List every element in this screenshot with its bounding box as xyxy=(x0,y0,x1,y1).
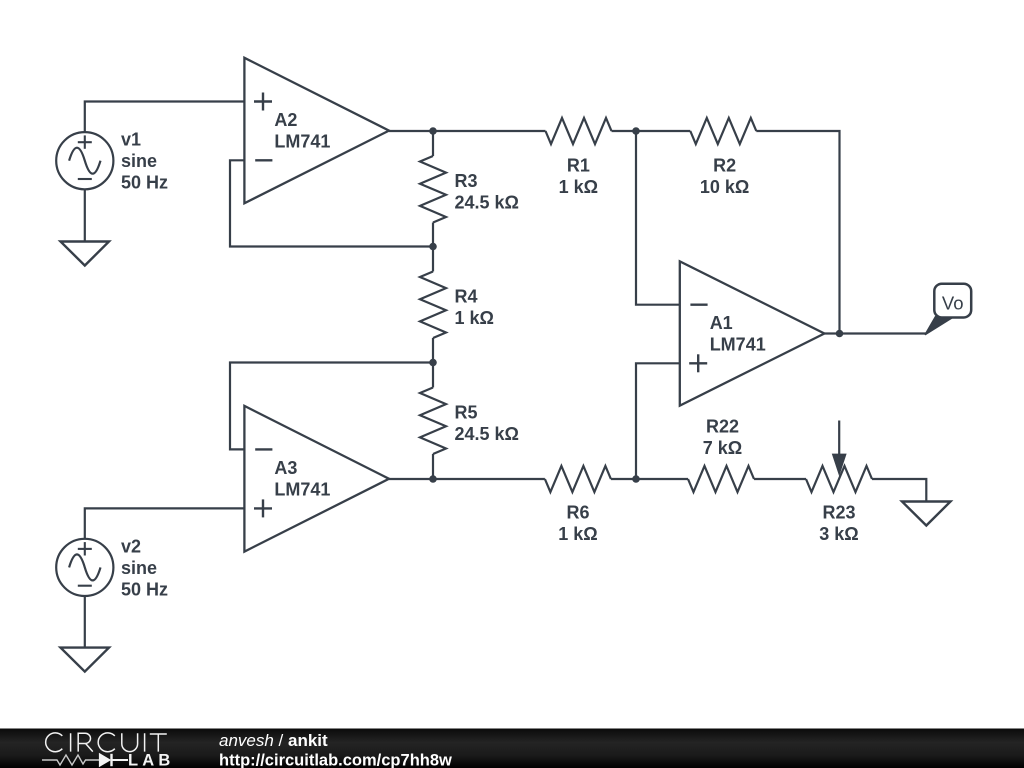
footer bar xyxy=(0,729,1024,768)
svg-text:sine: sine xyxy=(121,151,157,171)
svg-text:R23: R23 xyxy=(822,503,855,523)
wire v1 top to A2 plus input xyxy=(85,102,245,133)
A3 plus symbol xyxy=(254,507,272,509)
node B (R6-R22 / A1 non-inverting) xyxy=(632,475,640,483)
Vo flag box xyxy=(934,284,971,318)
svg-text:1 kΩ: 1 kΩ xyxy=(559,177,598,197)
wire R1 to node A xyxy=(612,130,637,132)
ground right xyxy=(902,502,951,526)
A1 plus symbol xyxy=(689,362,707,364)
svg-text:sine: sine xyxy=(121,558,157,578)
svg-text:A3: A3 xyxy=(274,458,297,478)
svg-text:3 kΩ: 3 kΩ xyxy=(819,524,858,544)
svg-text:v2: v2 xyxy=(121,537,141,557)
wire v2 to A3 plus input xyxy=(85,508,245,539)
svg-text:10 kΩ: 10 kΩ xyxy=(700,177,749,197)
svg-text:1 kΩ: 1 kΩ xyxy=(558,524,597,544)
CircuitLab logo text CIRCUIT (custom thin letterforms) xyxy=(46,733,167,752)
svg-text:R4: R4 xyxy=(455,287,478,307)
wire A1 output to Vo xyxy=(824,332,926,334)
op-amp A3 xyxy=(244,406,389,552)
node R3-R4 junction xyxy=(429,243,437,251)
svg-text:R2: R2 xyxy=(713,156,736,176)
potentiometer R23 xyxy=(806,466,872,492)
svg-text:A1: A1 xyxy=(710,313,733,333)
wire node A down to A1 minus xyxy=(636,131,680,305)
resistor R1 xyxy=(546,118,612,144)
wire v1 to ground xyxy=(84,189,86,242)
svg-text:R3: R3 xyxy=(455,171,478,191)
ground for v2 xyxy=(61,648,110,672)
node A2 out / R3 top xyxy=(429,127,437,135)
wire A2 minus feedback xyxy=(230,160,433,246)
svg-text:50 Hz: 50 Hz xyxy=(121,580,168,600)
resistor R3 xyxy=(432,131,434,156)
op-amp A1 xyxy=(680,261,825,405)
svg-text:24.5 kΩ: 24.5 kΩ xyxy=(455,193,519,213)
svg-text:LM741: LM741 xyxy=(274,480,330,500)
svg-text:1 kΩ: 1 kΩ xyxy=(455,308,494,328)
A1 minus symbol xyxy=(690,304,707,306)
Vo flag pointer xyxy=(925,317,954,335)
node A3 out / R5 bottom xyxy=(429,475,437,483)
svg-text:50 Hz: 50 Hz xyxy=(121,173,168,193)
A2 plus symbol xyxy=(254,100,272,102)
wire R23 to right ground xyxy=(872,479,926,502)
svg-text:http://circuitlab.com/cp7hh8w: http://circuitlab.com/cp7hh8w xyxy=(219,751,452,768)
svg-text:A2: A2 xyxy=(274,110,297,130)
wire A2 output to node xyxy=(389,130,433,132)
wire R2 to output node xyxy=(756,131,839,334)
resistor R5 xyxy=(432,363,434,388)
svg-text:v1: v1 xyxy=(121,130,141,150)
wire R6 to node B xyxy=(611,478,688,480)
svg-text:7 kΩ: 7 kΩ xyxy=(703,438,742,458)
svg-text:24.5 kΩ: 24.5 kΩ xyxy=(455,424,519,444)
sine wave xyxy=(56,132,113,189)
wire A3 output to bottom rail xyxy=(389,478,545,480)
svg-text:R1: R1 xyxy=(567,156,590,176)
svg-text:LAB: LAB xyxy=(128,751,175,768)
A2 minus symbol xyxy=(255,159,272,161)
svg-text:R5: R5 xyxy=(455,403,478,423)
resistor R4 xyxy=(432,247,434,272)
R23 wiper arrow xyxy=(838,421,840,457)
node A1 output xyxy=(836,330,844,338)
svg-text:LM741: LM741 xyxy=(274,132,330,152)
wire rail A2 out to R1 xyxy=(433,130,546,132)
svg-text:anvesh / ankit: anvesh / ankit xyxy=(219,731,328,750)
wire R22 to R23 xyxy=(754,478,806,480)
wire node A to R2 xyxy=(636,130,690,132)
resistor R6 xyxy=(545,466,611,492)
A3 minus symbol xyxy=(255,448,272,450)
wire A3 minus feedback xyxy=(230,363,433,450)
node A (R1-R2 / A1 inverting) xyxy=(632,127,640,135)
resistor R2 xyxy=(690,118,756,144)
ground for v1 xyxy=(61,242,110,266)
svg-text:LM741: LM741 xyxy=(710,334,766,354)
svg-text:R6: R6 xyxy=(566,503,589,523)
logo resistor squiggle and diode xyxy=(42,755,99,765)
wire v2 to ground xyxy=(84,596,86,648)
svg-text:R22: R22 xyxy=(706,417,739,437)
sine wave xyxy=(56,539,113,596)
node R4-R5 junction xyxy=(429,359,437,367)
resistor R22 xyxy=(688,466,754,492)
op-amp A2 xyxy=(244,58,389,204)
svg-text:Vo: Vo xyxy=(942,293,964,314)
wire A1 plus to node B xyxy=(636,363,680,479)
